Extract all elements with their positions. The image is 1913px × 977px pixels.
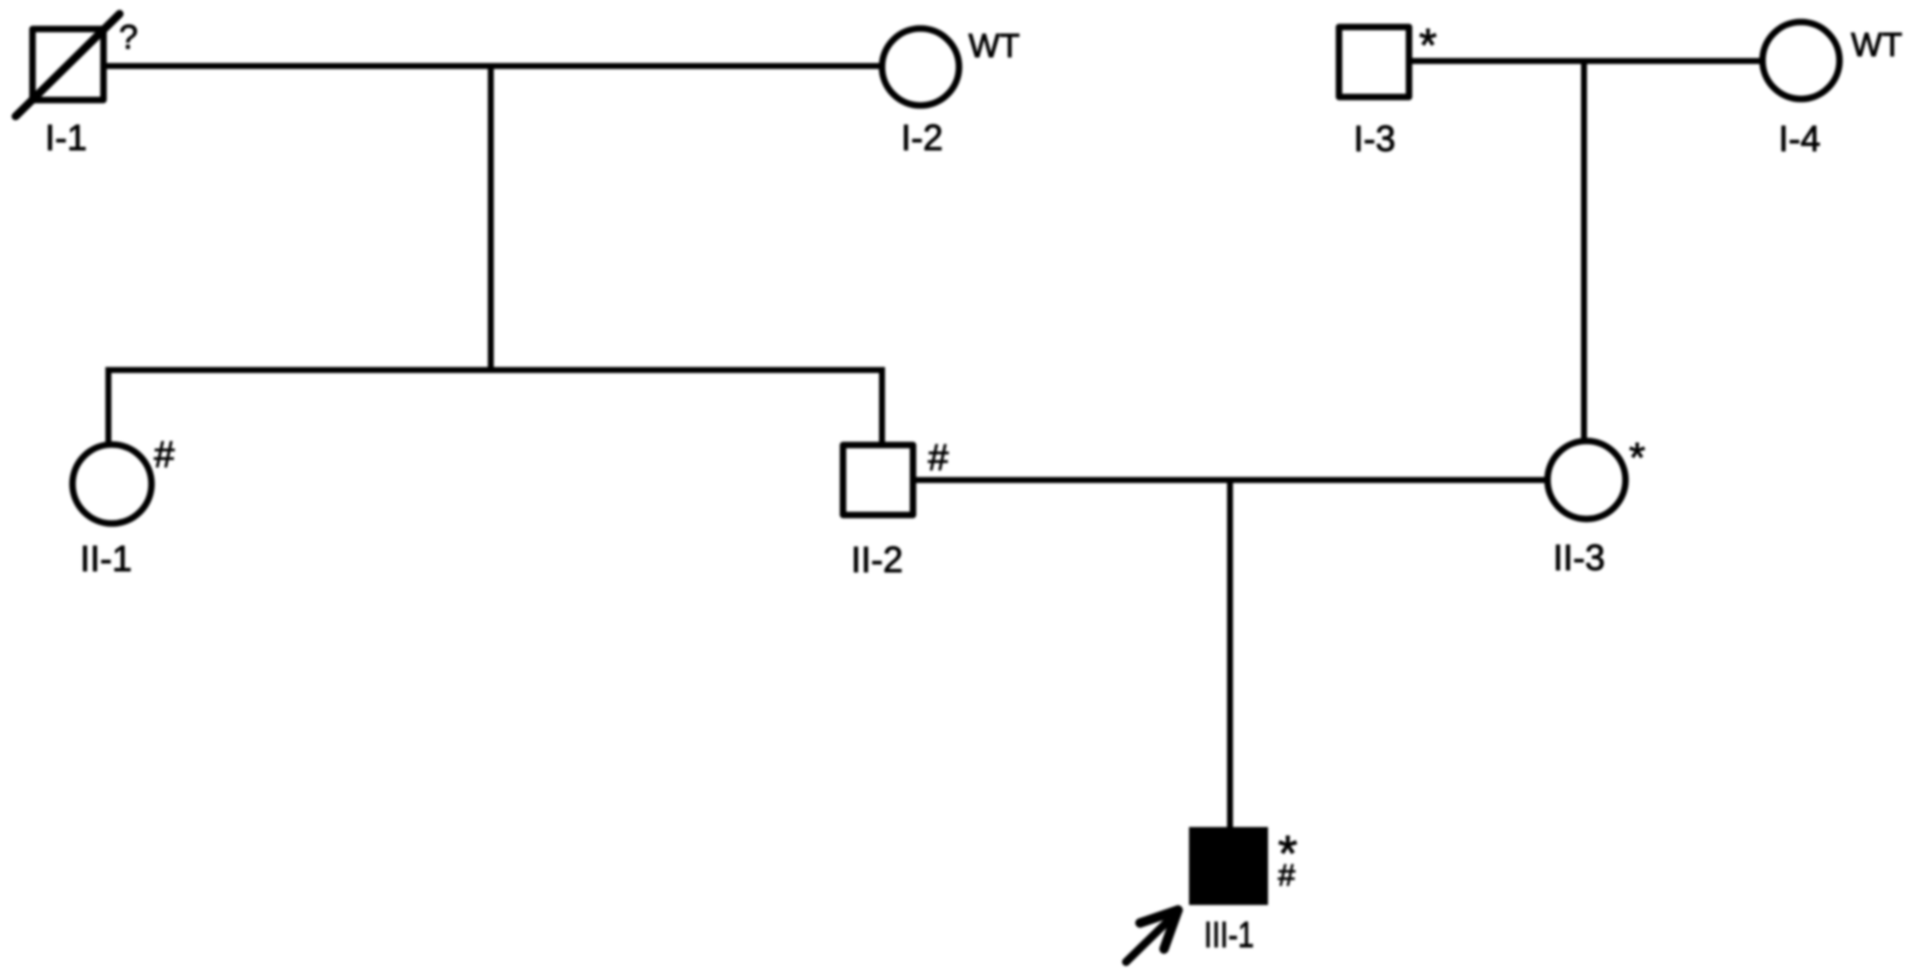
slash: deceased mark over I-1 (16, 14, 120, 116)
individual III-1: affected male filled square (proband) (1189, 827, 1268, 905)
individual II-1: female circle (73, 445, 152, 524)
svg-text:*: * (1419, 19, 1437, 71)
wire: descent drop to III-1 (1227, 480, 1233, 829)
svg-text:III-1: III-1 (1204, 914, 1254, 955)
svg-text:#: # (1278, 858, 1296, 893)
svg-text:#: # (928, 437, 949, 478)
svg-text:I-3: I-3 (1353, 118, 1395, 159)
wire: marriage line I-3 to I-4 (1409, 58, 1764, 64)
svg-text:WT: WT (1851, 26, 1902, 63)
individual I-3: male square (1339, 27, 1409, 97)
svg-text:WT: WT (969, 27, 1020, 64)
wire: descent drop from I-1/I-2 marriage (488, 66, 494, 373)
individual II-3: female circle (1548, 441, 1626, 519)
wire: sibship line generation II (108, 367, 882, 373)
wire: drop to II-2 (879, 367, 885, 446)
individual II-2: male square (843, 445, 913, 515)
wire: marriage line II-2 to II-3 (913, 477, 1549, 483)
individual I-2: female circle (882, 29, 959, 106)
svg-text:II-1: II-1 (80, 538, 132, 579)
svg-text:II-3: II-3 (1553, 537, 1605, 578)
wire: marriage line I-1 to I-2 (100, 63, 884, 69)
individual I-4: female circle (1763, 22, 1840, 99)
svg-text:I-1: I-1 (45, 117, 87, 158)
svg-text:I-4: I-4 (1778, 118, 1820, 159)
svg-text:#: # (154, 434, 175, 475)
wire: descent drop from I-3/I-4 marriage to II-3 (1581, 61, 1587, 443)
individual I-1: deceased male square (33, 29, 104, 100)
svg-text:I-2: I-2 (901, 117, 943, 158)
svg-text:?: ? (119, 19, 138, 57)
wire: drop to II-1 (105, 367, 111, 446)
svg-text:*: * (1629, 434, 1645, 481)
proband arrow head (1140, 910, 1178, 949)
svg-text:II-2: II-2 (851, 539, 903, 580)
proband arrow shaft (1126, 921, 1168, 962)
